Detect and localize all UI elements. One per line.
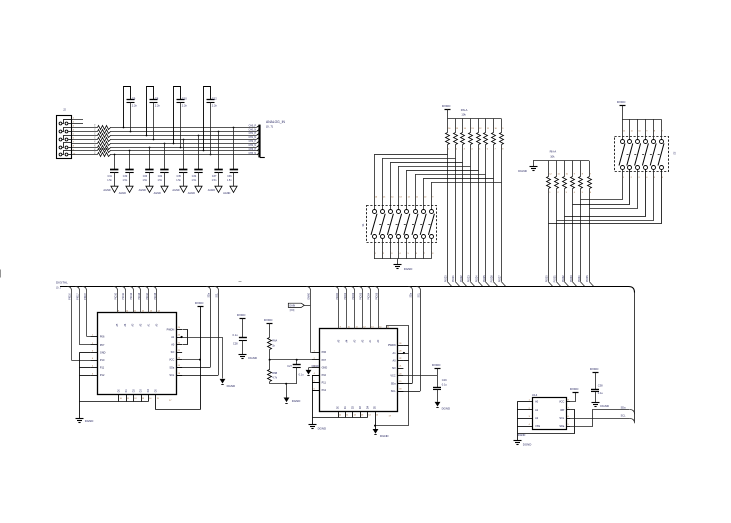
- wire U10 thermal pad to DVDD: [155, 394, 157, 410]
- switch S1 position 7: [422, 210, 426, 214]
- svg-text:SDa: SDa: [208, 292, 210, 297]
- wire bus tap to U10 top pin 1: [113, 287, 117, 291]
- svg-text:PIO04: PIO04: [368, 292, 371, 300]
- resistor R11: [98, 134, 111, 138]
- connector J2 row 3 pins: [59, 138, 62, 141]
- svg-text:PIO18: PIO18: [85, 293, 87, 300]
- svg-text:1.5n: 1.5n: [157, 179, 162, 182]
- wire bus tap to U10 top pin 4: [136, 287, 140, 291]
- stray mark above bus: [239, 281, 242, 283]
- svg-text:VSS: VSS: [535, 425, 540, 428]
- wire divider bottom node: [270, 383, 297, 385]
- resistor R14: [98, 146, 111, 150]
- svg-text:R6B: R6B: [272, 372, 277, 375]
- svg-text:P06: P06: [100, 336, 105, 339]
- svg-text:P11: P11: [322, 382, 327, 385]
- svg-text:PIO11: PIO11: [122, 292, 125, 299]
- resistor R16: [98, 153, 111, 157]
- wire U10 SDa from bus: [206, 287, 210, 291]
- ground DGND for divider: [286, 384, 288, 398]
- resistor R15: [98, 149, 111, 153]
- wire U11 bottom rail: [312, 417, 367, 419]
- wire divider mid node: [269, 350, 271, 360]
- svg-text:DGND: DGND: [227, 384, 236, 388]
- svg-text:CH0_N: CH0_N: [248, 129, 256, 131]
- connector J2 row 5 pins: [59, 153, 62, 156]
- power DVDD for U14 VCC: [571, 393, 576, 402]
- wire channel line 1 left segment: [72, 131, 98, 133]
- svg-text:PIO03: PIO03: [360, 292, 363, 300]
- wire bus tap to U10 top pin 6: [152, 287, 156, 291]
- resistor R13: [98, 142, 111, 146]
- net flag GAIN: [288, 303, 304, 307]
- capacitor C12: [203, 150, 205, 152]
- resistor RN1 element 4: [470, 119, 472, 133]
- svg-text:DGND: DGND: [292, 399, 301, 403]
- resistor RN1 element 2: [455, 119, 457, 133]
- page edge mark: [0, 270, 2, 278]
- node U10 A1 junction: [181, 336, 183, 338]
- svg-text:PIO01: PIO01: [344, 292, 347, 300]
- node U11 A1 junction: [403, 352, 405, 354]
- node U10 VCC-DVDD junction: [199, 359, 201, 361]
- capacitor C10: [173, 143, 175, 145]
- svg-text:DGND: DGND: [518, 434, 526, 437]
- capacitor C31: [114, 154, 116, 156]
- svg-text:PIO31: PIO31: [554, 275, 557, 283]
- wire channel line 0 left segment: [72, 127, 98, 129]
- capacitor C9: [123, 127, 125, 129]
- svg-text:1.5n: 1.5n: [123, 179, 128, 182]
- wire U11 left pin 4 stub: [312, 375, 320, 377]
- op-amp U10 body: [98, 313, 177, 395]
- capacitor C36: [233, 127, 235, 129]
- wire RN1 column 3 to bus: [462, 145, 464, 282]
- wire bus tap to U11 top pin 5: [366, 287, 370, 291]
- power DVDD rail for U10: [198, 306, 204, 308]
- wire bus tap to U11 top pin 3: [350, 287, 354, 291]
- power DVDD for S2: [620, 105, 626, 107]
- svg-text:U14: U14: [532, 393, 538, 397]
- bus entry channel 6: [257, 149, 260, 151]
- svg-text:R6A: R6A: [272, 340, 277, 343]
- wire U11 VCC to DVDD: [403, 375, 437, 377]
- dip switch S1: [367, 206, 437, 243]
- svg-text:J2: J2: [63, 108, 66, 112]
- svg-text:DGND: DGND: [248, 356, 257, 360]
- svg-text:PIO27: PIO27: [498, 275, 501, 283]
- wire U11 SDa from bus: [408, 287, 412, 291]
- wire S2 top rail: [622, 119, 661, 121]
- wire U11 right pin 4 stub: [398, 368, 404, 370]
- wire U11 right pin 2 stub: [398, 353, 404, 355]
- resistor RN2 element 5: [580, 161, 582, 177]
- wire U11 bottom pin 4: [360, 411, 362, 417]
- svg-text:1.5n: 1.5n: [142, 179, 147, 182]
- wire channel line 3 left segment: [72, 139, 98, 141]
- svg-text:P11: P11: [100, 367, 105, 370]
- capacitor C33: [149, 147, 151, 149]
- svg-text:SO: SO: [171, 351, 175, 354]
- svg-text:SDa: SDa: [169, 366, 174, 369]
- wire RN1 column 8 to bus: [501, 145, 503, 282]
- wire bus tap to U11 top pin 1: [334, 287, 338, 291]
- svg-text:SCL: SCL: [418, 292, 420, 297]
- svg-text:CH1_P: CH1_P: [249, 133, 257, 135]
- svg-text:CH2_P: CH2_P: [249, 141, 257, 143]
- resistor R9: [98, 126, 111, 130]
- wire channel line 4 left segment: [72, 143, 98, 145]
- svg-text:PIO30: PIO30: [546, 275, 549, 283]
- capacitor C35: [183, 139, 185, 141]
- wire U14 WP loop to ground: [518, 410, 575, 434]
- wire U10 right pin 7 stub: [176, 375, 182, 377]
- ground DGND for C29: [435, 402, 441, 407]
- svg-text:PIO17: PIO17: [78, 293, 80, 300]
- svg-text:0.1u: 0.1u: [442, 382, 448, 386]
- svg-text:1.5n: 1.5n: [107, 179, 112, 182]
- wire U11 thermal pad: [375, 411, 377, 426]
- connector J2 unused pin stubs: [63, 119, 83, 121]
- wire U14 right pin 1 stub: [567, 401, 571, 403]
- wire U10 right pin 2 stub: [176, 337, 182, 339]
- wire U11 right pin 3 stub: [398, 360, 404, 362]
- wire U14 address ground rail: [517, 402, 519, 441]
- connector J2: [57, 116, 72, 159]
- svg-text:PIO25: PIO25: [483, 275, 486, 283]
- svg-text:DGND: DGND: [442, 407, 451, 411]
- wire RN2 column 4 to bus: [572, 189, 574, 282]
- wire RN2 column 2 to bus: [556, 189, 558, 282]
- wire U10 right pin 6 stub: [176, 367, 182, 369]
- wire U14 SCL to I2C bus: [570, 418, 629, 420]
- svg-text:C36: C36: [227, 175, 232, 178]
- resistor network RN-B (RN2) common rail: [533, 160, 589, 162]
- svg-text:PIO20: PIO20: [444, 275, 447, 283]
- svg-text:DVDD: DVDD: [195, 301, 204, 305]
- wire channel line 5 right segment: [110, 147, 257, 149]
- svg-text:SDa: SDa: [621, 406, 626, 409]
- svg-text:C32: C32: [158, 175, 163, 178]
- wire U14 left pin 1: [517, 401, 533, 403]
- svg-text:0.1u: 0.1u: [598, 391, 604, 395]
- svg-text:P07: P07: [322, 359, 327, 362]
- svg-text:DVDD: DVDD: [432, 363, 441, 367]
- switch S1 position 6: [414, 210, 418, 214]
- wire U10 left pin 1 stub: [90, 336, 98, 338]
- wire channel line 6 right segment: [110, 150, 257, 152]
- resistor RN1 element 1: [447, 119, 449, 133]
- resistor R6A 1k: [268, 338, 272, 350]
- svg-text:PIO34: PIO34: [578, 275, 581, 283]
- svg-text:SDa: SDa: [559, 425, 564, 428]
- bus DIGITAL horizontal: [60, 287, 635, 293]
- svg-text:PIO24: PIO24: [475, 275, 478, 283]
- wire RN1 column 7 to bus: [493, 145, 495, 282]
- ground DGND for U14: [514, 440, 522, 442]
- power DVDD for C38: [593, 372, 599, 374]
- svg-text:SCL: SCL: [391, 390, 396, 393]
- svg-text:CH2_N: CH2_N: [248, 145, 256, 147]
- resistor RN1 element 5: [478, 119, 480, 133]
- wire U10 left pin 6 stub: [90, 375, 98, 377]
- bus entry channel 2: [257, 133, 260, 135]
- svg-text:GND: GND: [100, 351, 106, 354]
- wire U10 bottom pin 5: [148, 394, 150, 401]
- wire U10 bottom pin 2: [126, 394, 128, 401]
- wire RN1 column 4 to bus: [470, 145, 472, 282]
- wire channel line 2 right segment: [110, 135, 257, 137]
- svg-text:VCC: VCC: [390, 375, 395, 378]
- svg-text:R15: R15: [95, 147, 97, 150]
- svg-text:0.1u: 0.1u: [233, 333, 239, 337]
- wire U14 SDa to I2C bus: [571, 410, 630, 427]
- resistor R6B 4.7k: [269, 360, 271, 370]
- wire U11 right pin 5 stub: [398, 375, 404, 377]
- svg-text:VCC: VCC: [169, 359, 174, 362]
- svg-text:PWDN: PWDN: [167, 328, 175, 331]
- svg-text:SO: SO: [392, 367, 396, 370]
- wire U11 right pin 6 stub: [398, 383, 404, 385]
- wire S2 position 2 to RN2: [573, 170, 630, 205]
- svg-text:10k: 10k: [550, 154, 555, 158]
- svg-text:P10: P10: [100, 359, 105, 362]
- svg-text:AGND: AGND: [103, 189, 110, 192]
- dip switch S2: [615, 137, 669, 172]
- ground AGND for C37: [215, 186, 222, 192]
- svg-text:4.7k: 4.7k: [272, 377, 277, 380]
- svg-text:R13: R13: [95, 139, 97, 142]
- ground DGND for C38: [592, 402, 600, 404]
- wire U10 left pin 4 stub: [90, 360, 98, 362]
- wire U11 bottom pin 5: [367, 411, 369, 417]
- svg-text:PIO14: PIO14: [146, 292, 149, 300]
- wire RN2 column 5 to bus: [580, 189, 582, 282]
- svg-text:1.5n: 1.5n: [192, 179, 197, 182]
- wire bus tap to U11 top pin 6: [374, 287, 378, 291]
- wire bus tap to U10 top pin 5: [144, 287, 148, 291]
- svg-text:AGND: AGND: [139, 189, 146, 192]
- svg-text:DGND: DGND: [518, 169, 527, 173]
- svg-text:P12: P12: [322, 389, 327, 392]
- connector J2 row 1 pins: [59, 122, 62, 125]
- svg-text:ANALOG_IN: ANALOG_IN: [266, 120, 285, 124]
- svg-text:PIO21: PIO21: [452, 275, 455, 283]
- resistor RN1 element 6: [485, 119, 487, 133]
- wire U11 PWDN-A0 strap to ground rail: [403, 345, 408, 347]
- svg-text:PIO10: PIO10: [114, 292, 117, 300]
- wire U11 P10-P12 ground rail: [312, 375, 314, 424]
- wire U10 bottom pin 1: [118, 394, 120, 401]
- svg-text:PIO26: PIO26: [491, 275, 494, 283]
- switch S1 position 2: [381, 210, 385, 214]
- ground DGND for S1: [397, 259, 399, 265]
- ground AGND for C32: [161, 186, 168, 192]
- switch S2 position 2: [629, 119, 631, 140]
- switch S2 position 3: [637, 119, 639, 140]
- svg-text:C27: C27: [287, 365, 292, 368]
- power DVDD for RN1: [445, 109, 451, 111]
- svg-text:R10: R10: [95, 127, 97, 130]
- svg-text:SDa: SDa: [391, 382, 396, 385]
- svg-text:C29: C29: [442, 378, 447, 382]
- wire RN2 column 6 to bus: [589, 189, 591, 282]
- wire channel line 7 right segment: [110, 154, 257, 156]
- ground AGND for C35: [180, 186, 187, 192]
- wire S1 position 6 to RN1: [416, 174, 486, 176]
- svg-text:GND: GND: [322, 366, 328, 369]
- svg-text:VCC: VCC: [559, 401, 564, 404]
- wire channel line 4 right segment: [110, 143, 257, 145]
- bus entry channel 0: [257, 125, 260, 127]
- capacitor C34: [198, 135, 200, 137]
- svg-text:C8: C8: [155, 96, 159, 100]
- svg-text:PIO15: PIO15: [154, 292, 157, 300]
- wire S1 position 2 to RN1: [383, 158, 456, 160]
- wire U11 bottom pin 1: [338, 411, 340, 417]
- svg-text:DVDD: DVDD: [590, 367, 599, 371]
- wire bus tap to U10 pin P07: [75, 287, 79, 291]
- svg-text:DVDD: DVDD: [264, 318, 273, 322]
- bus entry channel 7: [257, 153, 260, 155]
- wire U14 left pin 3: [517, 418, 533, 420]
- node U11 thermal pad junction: [374, 425, 376, 427]
- svg-text:PIO12: PIO12: [130, 292, 133, 300]
- switch S1 position 3: [389, 210, 393, 214]
- wire RN1 column 1 to bus: [447, 145, 449, 282]
- bus entry channel 3: [257, 137, 260, 139]
- wire bus tap to U11 top pin 4: [358, 287, 362, 291]
- ground DGND for C28: [239, 354, 247, 356]
- capacitor C27 0.1u: [296, 360, 298, 365]
- wire U14 right pin 4 stub: [567, 426, 571, 428]
- svg-text:C10: C10: [182, 96, 187, 100]
- svg-text:CH3_P: CH3_P: [249, 149, 257, 151]
- switch S1 position 8: [430, 210, 434, 214]
- resistor RN2 element 1: [548, 161, 550, 177]
- power DVDD for C28: [240, 318, 246, 320]
- svg-text:PIO33: PIO33: [570, 275, 573, 283]
- wire U11 right pin 1 stub: [398, 345, 404, 347]
- switch S2 position 4: [645, 119, 647, 140]
- resistor RN2 element 4: [572, 161, 574, 177]
- svg-text:C9: C9: [132, 96, 136, 100]
- wire RN1 column 2 to bus: [455, 145, 457, 282]
- svg-text:AGND: AGND: [208, 189, 215, 192]
- wire S1 position 7 to RN1: [424, 178, 494, 180]
- wire U10 right pin 5 stub: [176, 359, 182, 361]
- capacitor C28: [239, 337, 247, 339]
- wire U11 SCL from bus: [416, 287, 420, 291]
- ground AGND for C30: [126, 186, 133, 192]
- resistor R12: [98, 138, 111, 142]
- svg-text:DGND: DGND: [380, 434, 389, 438]
- svg-text:C38: C38: [598, 383, 603, 387]
- svg-text:PIO02: PIO02: [352, 292, 355, 300]
- svg-text:1.5n: 1.5n: [176, 179, 181, 182]
- bus entry channel 4: [257, 141, 260, 143]
- svg-text:R9: R9: [95, 124, 97, 126]
- resistor RN2 element 2: [556, 161, 558, 177]
- svg-text:SCL: SCL: [621, 414, 626, 417]
- svg-text:2.2n: 2.2n: [155, 104, 161, 108]
- wire U14 left pin 4: [517, 426, 533, 428]
- svg-text:GAIN0: GAIN0: [307, 292, 310, 300]
- svg-text:[3:0]: [3:0]: [290, 310, 295, 312]
- switch S2 position 5: [653, 119, 655, 140]
- wire bus tap to U10 top pin 2: [121, 287, 125, 291]
- svg-text:R12: R12: [95, 135, 97, 138]
- node divider bottom junction: [285, 383, 287, 385]
- svg-text:C12: C12: [212, 96, 217, 100]
- resistor network RN-A (RN1) common rail: [447, 118, 501, 120]
- wire U10 bottom pin 4: [141, 394, 143, 401]
- wire U10 PWDN-A0 strap loop: [183, 330, 188, 345]
- wire U10 right pin 4 stub: [176, 352, 182, 354]
- capacitor C29: [433, 387, 441, 389]
- svg-text:C37: C37: [212, 175, 217, 178]
- svg-text:PIO22: PIO22: [460, 275, 463, 283]
- ground DGND for U11 pad: [375, 426, 377, 429]
- svg-text:2.2n: 2.2n: [132, 104, 138, 108]
- resistor RN1 element 7: [493, 119, 495, 133]
- svg-text:[0..7]: [0..7]: [266, 125, 273, 129]
- wire U10 right pin 1 stub: [176, 329, 182, 331]
- svg-text:SDa: SDa: [410, 292, 412, 297]
- wire S1 position 4 to RN1: [399, 166, 471, 168]
- svg-text:RN-A: RN-A: [550, 150, 557, 154]
- svg-text:C34: C34: [192, 175, 197, 178]
- svg-text:C35: C35: [177, 175, 182, 178]
- svg-text:C30: C30: [123, 175, 128, 178]
- resistor RN1 element 8: [501, 119, 503, 133]
- svg-text:DIGITAL: DIGITAL: [56, 280, 68, 284]
- svg-text:AGND: AGND: [172, 189, 179, 192]
- svg-text:PIO35: PIO35: [586, 275, 589, 283]
- svg-text:AGND: AGND: [154, 192, 161, 195]
- power DVDD for divider: [267, 323, 273, 325]
- wire GAIN flag to bus tap: [304, 305, 310, 307]
- analog input bus spine: [258, 125, 260, 158]
- ground DGND for RN2 rail: [533, 161, 535, 166]
- svg-text:R16: R16: [95, 151, 97, 154]
- wire channel line 6 left segment: [72, 150, 98, 152]
- svg-text:2.2n: 2.2n: [212, 104, 218, 108]
- wire bus tap to U10 top pin 3: [129, 287, 133, 291]
- svg-text:C33: C33: [143, 175, 148, 178]
- wire U10 bottom rail to ground: [79, 401, 148, 403]
- capacitor C30: [129, 150, 131, 152]
- wire channel line 7 left segment: [72, 154, 98, 156]
- capacitor C32: [164, 143, 166, 145]
- svg-text:DVDD: DVDD: [617, 100, 626, 104]
- svg-text:SCL: SCL: [169, 374, 174, 377]
- svg-text:PIO05: PIO05: [376, 292, 379, 300]
- svg-text:DVDD: DVDD: [237, 313, 246, 317]
- wire S1 position 3 to RN1: [391, 162, 463, 164]
- switch S2 position 1: [622, 119, 624, 140]
- wire channel line 5 left segment: [72, 147, 98, 149]
- ground DGND at U11 GND pin: [309, 367, 312, 369]
- ground DGND bottom-left of U10: [76, 418, 84, 420]
- wire U11 top pin 7 to strap: [387, 326, 409, 346]
- svg-text:0.1u: 0.1u: [299, 374, 304, 377]
- svg-text:R14: R14: [95, 143, 97, 146]
- svg-text:P10: P10: [322, 374, 327, 377]
- switch S1 position 1: [373, 210, 377, 214]
- switch S1 position 4: [397, 210, 401, 214]
- wire S2 position 4 to RN2: [565, 170, 646, 217]
